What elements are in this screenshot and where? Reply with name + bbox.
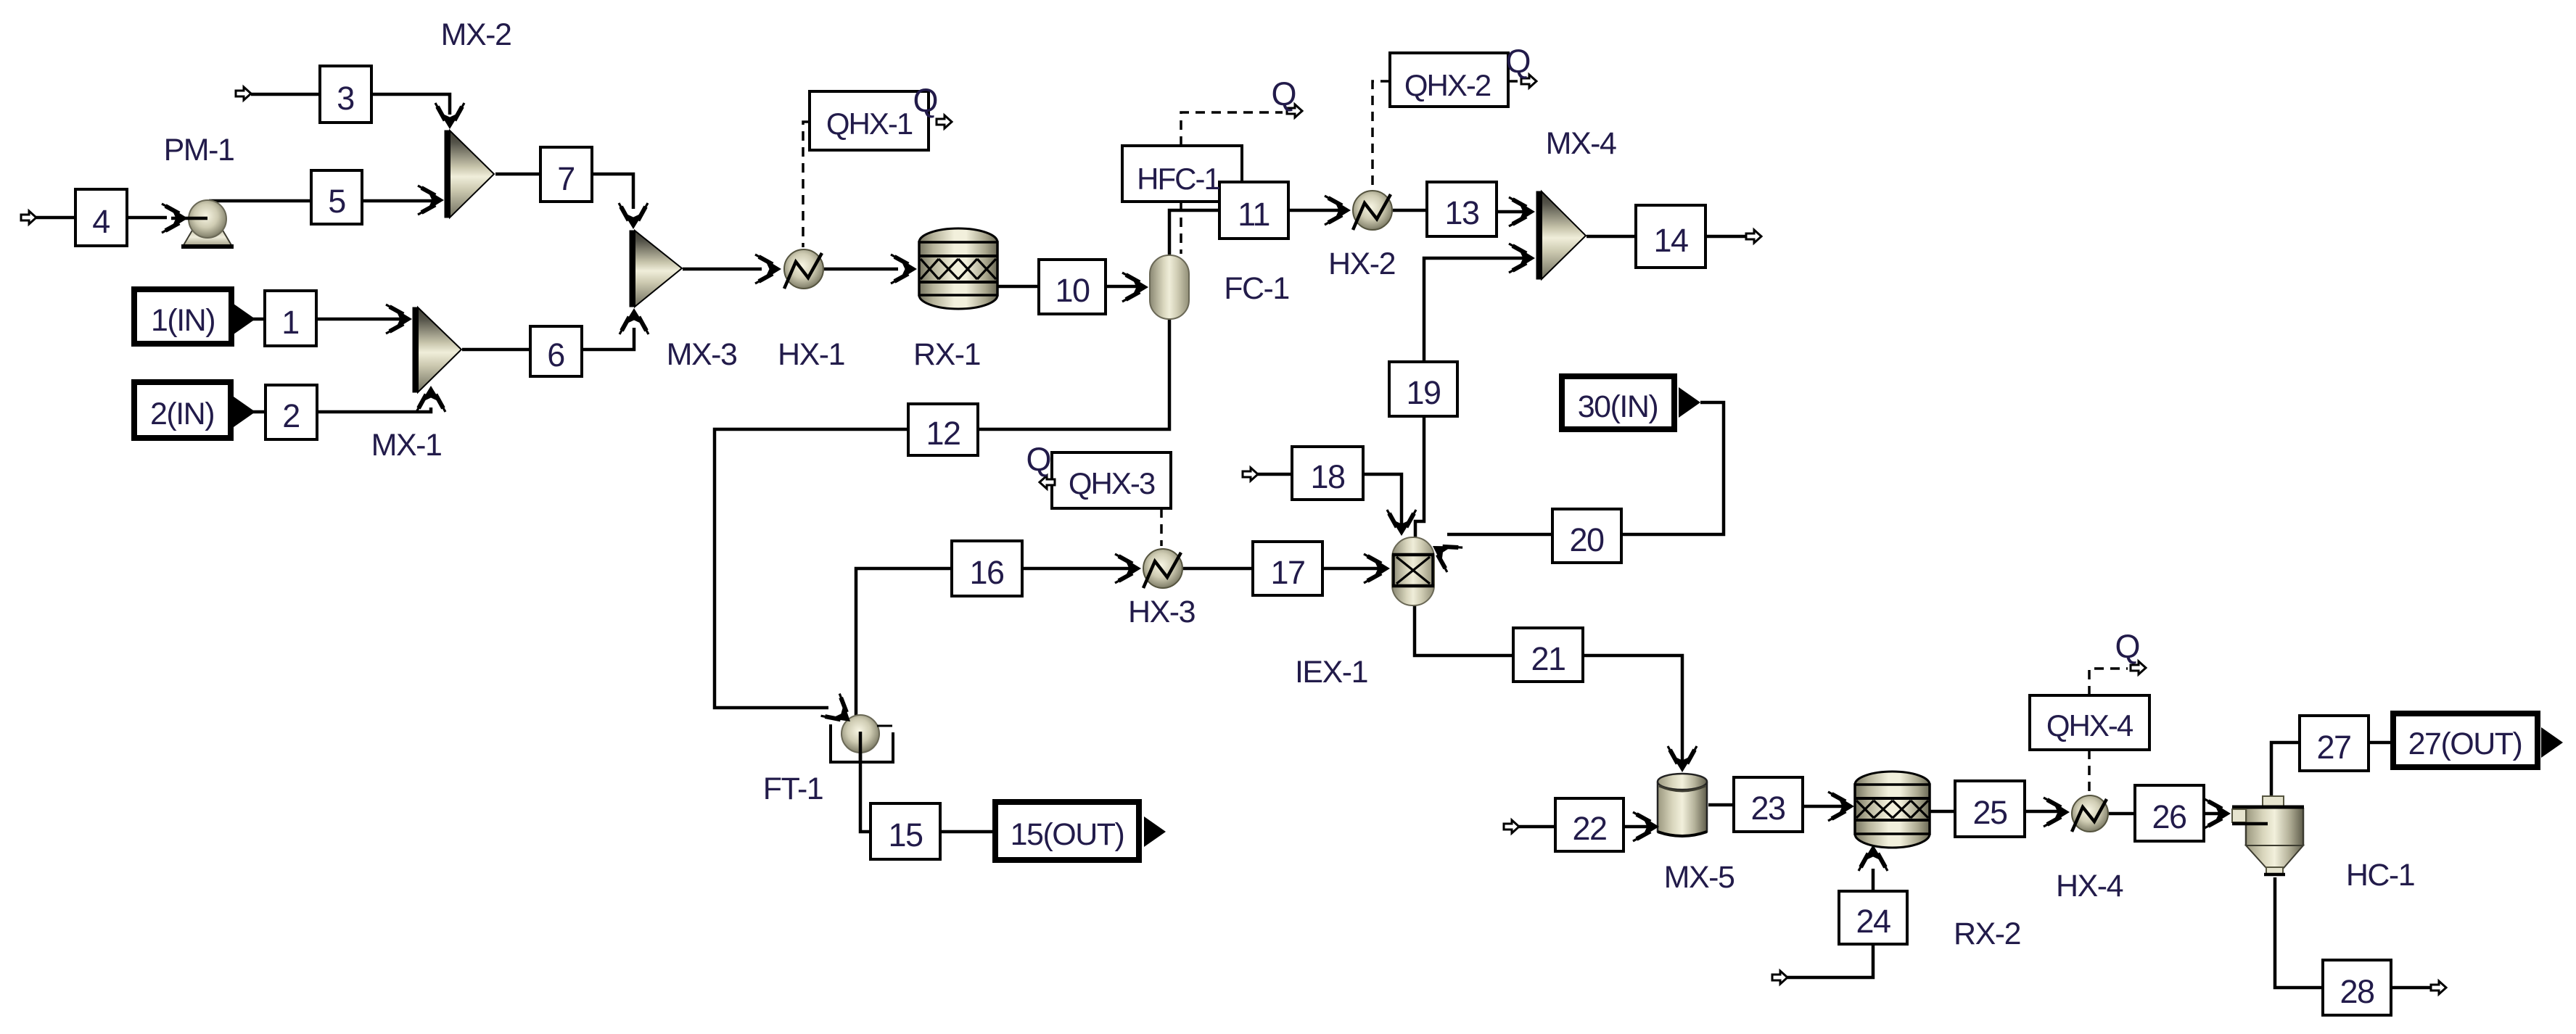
svg-text:21: 21 [1531, 640, 1565, 677]
svg-text:27(OUT): 27(OUT) [2408, 727, 2522, 761]
svg-text:FT-1: FT-1 [763, 772, 823, 806]
svg-text:HC-1: HC-1 [2346, 858, 2414, 893]
svg-text:Q: Q [1026, 441, 1051, 478]
svg-text:HFC-1: HFC-1 [1137, 162, 1219, 196]
svg-text:13: 13 [1444, 194, 1479, 231]
svg-text:Q: Q [1271, 75, 1296, 112]
svg-text:MX-4: MX-4 [1546, 126, 1616, 161]
svg-text:28: 28 [2340, 973, 2374, 1010]
svg-text:11: 11 [1238, 196, 1270, 233]
svg-text:2: 2 [282, 397, 300, 434]
svg-text:26: 26 [2152, 798, 2186, 835]
svg-text:1: 1 [281, 304, 299, 341]
svg-text:27: 27 [2316, 729, 2350, 766]
svg-text:3: 3 [337, 80, 354, 117]
svg-text:6: 6 [547, 336, 564, 373]
svg-text:QHX-1: QHX-1 [826, 107, 913, 141]
svg-text:5: 5 [328, 183, 345, 220]
svg-text:HX-4: HX-4 [2056, 869, 2123, 903]
svg-text:QHX-4: QHX-4 [2046, 708, 2133, 743]
svg-text:18: 18 [1310, 458, 1345, 495]
svg-text:QHX-2: QHX-2 [1404, 68, 1491, 102]
svg-text:IEX-1: IEX-1 [1295, 655, 1367, 690]
svg-text:1(IN): 1(IN) [151, 303, 215, 338]
svg-text:10: 10 [1055, 272, 1090, 309]
svg-text:19: 19 [1406, 374, 1440, 411]
svg-text:4: 4 [92, 203, 110, 240]
svg-text:22: 22 [1572, 810, 1606, 847]
svg-text:17: 17 [1270, 554, 1304, 591]
svg-text:HX-2: HX-2 [1328, 247, 1395, 281]
svg-text:MX-2: MX-2 [441, 17, 511, 52]
svg-text:HX-3: HX-3 [1128, 595, 1196, 629]
svg-text:MX-3: MX-3 [667, 337, 737, 372]
svg-text:16: 16 [969, 554, 1004, 591]
svg-text:20: 20 [1569, 521, 1604, 558]
svg-text:Q: Q [913, 82, 938, 119]
svg-text:12: 12 [926, 415, 960, 452]
svg-text:14: 14 [1653, 222, 1688, 259]
svg-text:HX-1: HX-1 [778, 337, 844, 372]
svg-text:2(IN): 2(IN) [150, 397, 214, 431]
svg-text:15: 15 [888, 816, 923, 853]
svg-text:30(IN): 30(IN) [1578, 389, 1658, 424]
svg-text:25: 25 [1972, 794, 2007, 831]
svg-text:24: 24 [1856, 903, 1890, 940]
svg-text:PM-1: PM-1 [164, 133, 234, 167]
svg-text:23: 23 [1750, 790, 1785, 827]
svg-text:Q: Q [2115, 628, 2140, 665]
svg-text:FC-1: FC-1 [1224, 271, 1289, 306]
svg-text:Q: Q [1505, 43, 1531, 80]
svg-text:7: 7 [557, 160, 575, 197]
svg-text:MX-1: MX-1 [371, 428, 442, 463]
svg-text:RX-2: RX-2 [1954, 917, 2020, 951]
svg-text:15(OUT): 15(OUT) [1011, 817, 1124, 852]
svg-text:MX-5: MX-5 [1664, 860, 1735, 895]
svg-text:RX-1: RX-1 [913, 337, 980, 372]
svg-text:QHX-3: QHX-3 [1069, 466, 1155, 500]
